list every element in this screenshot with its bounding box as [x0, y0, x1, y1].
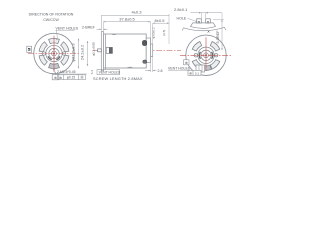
gdt frame below left view	[54, 69, 56, 75]
left view vent slots	[39, 38, 69, 68]
middle view: red centerline	[93, 49, 181, 51]
svg-text:φ3.0±0.2: φ3.0±0.2	[152, 27, 156, 39]
gdt frame below right view	[188, 70, 201, 75]
right view screw holes	[194, 54, 218, 57]
note: position frame	[58, 75, 86, 80]
svg-text:φ27.7±0.3: φ27.7±0.3	[71, 43, 76, 62]
left view red centerlines	[28, 36, 80, 69]
right view red centerlines	[180, 37, 232, 70]
svg-text:φ2.3±0.05: φ2.3±0.05	[92, 42, 96, 56]
rear bracket	[146, 38, 150, 63]
svg-text:VENT HOLES: VENT HOLES	[56, 26, 79, 30]
rear bump	[151, 44, 153, 57]
svg-text:M: M	[28, 48, 32, 51]
left view screw holes	[42, 52, 66, 55]
x mark brush	[208, 31, 210, 33]
svg-text:φ0.15: φ0.15	[67, 76, 75, 80]
right view vent slots	[192, 42, 220, 71]
svg-text:4±0.3: 4±0.3	[132, 9, 143, 14]
left view inner rings	[46, 45, 62, 61]
svg-text:6.4: 6.4	[90, 70, 94, 75]
terminal tab 2	[206, 19, 211, 23]
svg-text:2-M2.6*0.45: 2-M2.6*0.45	[57, 70, 76, 74]
dim: 37.8±0.5	[103, 21, 150, 23]
svg-text:CW/CCW: CW/CCW	[43, 18, 59, 22]
end bell joint line	[105, 34, 107, 68]
terminal upper (side view)	[142, 40, 146, 45]
svg-text:24.2±0.2: 24.2±0.2	[80, 44, 85, 60]
svg-text:2.8: 2.8	[158, 69, 163, 73]
svg-text:⊕: ⊕	[189, 71, 192, 75]
svg-text:2.8±0.1: 2.8±0.1	[174, 7, 188, 12]
svg-text:5.0REF: 5.0REF	[216, 30, 220, 44]
svg-text:⊕: ⊕	[185, 61, 188, 65]
right view brush arcs	[199, 52, 212, 59]
connector x222	[221, 13, 223, 20]
terminal tab 1	[197, 19, 202, 23]
left view red mini arrows	[53, 48, 55, 59]
right view red mini arrows	[200, 54, 211, 56]
svg-text:⊕: ⊕	[59, 76, 62, 80]
gdt box left of right view	[184, 60, 190, 65]
dim: 24.2 vertical	[87, 41, 89, 66]
left view brush arcs	[48, 56, 60, 59]
terminal lower (side view)	[143, 60, 147, 63]
svg-text:37.8±0.5: 37.8±0.5	[119, 17, 135, 22]
svg-text:VENT HOLES: VENT HOLES	[99, 71, 121, 75]
svg-text:DIRECTION OF ROTATION: DIRECTION OF ROTATION	[29, 13, 74, 17]
dim: 2.8 bottom	[150, 57, 152, 72]
svg-text:8±0.5: 8±0.5	[155, 18, 166, 23]
right view end cap dish	[184, 27, 225, 30]
svg-text:0.1: 0.1	[195, 71, 200, 75]
dim: 8±0.5	[153, 22, 169, 24]
svg-text:2-BREF: 2-BREF	[82, 25, 96, 29]
right view bottom box	[196, 65, 205, 72]
note: vent holes boxed	[105, 68, 107, 70]
terminal boat	[191, 23, 216, 28]
middle view: motor can	[103, 34, 146, 68]
svg-text:HOLE: HOLE	[177, 16, 187, 20]
can break marks	[112, 34, 134, 68]
shaft	[98, 49, 102, 52]
dim: 4±0.3	[101, 15, 169, 30]
dim: 5.0REF right	[221, 20, 223, 50]
left view outer circle	[34, 33, 74, 73]
shaft collar (knurl)	[106, 47, 112, 53]
right view inner rings	[198, 47, 214, 63]
mounting flange	[101, 32, 103, 71]
svg-text:SCREW LENGTH 2.8MAX: SCREW LENGTH 2.8MAX	[93, 76, 143, 81]
svg-text:⊕: ⊕	[54, 76, 57, 80]
right view outer circle	[186, 35, 226, 75]
dim: phi27.7 vertical	[78, 39, 80, 69]
datum box left	[27, 46, 32, 52]
svg-text:VENT HOLES: VENT HOLES	[168, 66, 191, 70]
svg-text:(2.5): (2.5)	[162, 30, 166, 36]
